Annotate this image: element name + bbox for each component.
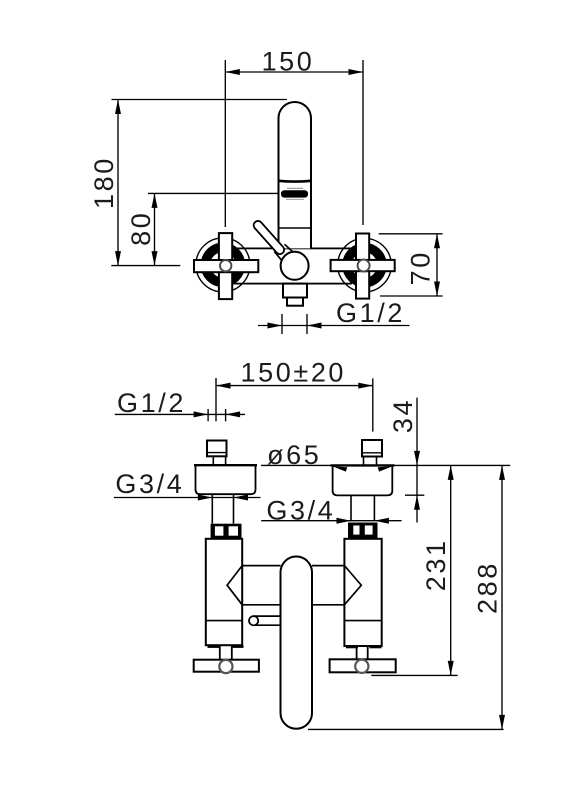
svg-text:150: 150 xyxy=(262,47,315,77)
arrow G1/2 left xyxy=(268,323,283,329)
arrow ø65 left xyxy=(333,466,348,471)
dim 70 extension top xyxy=(379,233,443,235)
arrow 231 bottom xyxy=(448,661,454,676)
right handle bar xyxy=(330,659,396,672)
arrowheads bottom view xyxy=(194,383,505,730)
left inlet square xyxy=(207,441,227,457)
arrow G1/2 right xyxy=(226,411,241,417)
arrow 288 top xyxy=(499,465,505,480)
dim 70 extension bottom xyxy=(380,295,443,297)
231 dim line xyxy=(450,465,452,675)
34 bottom tick xyxy=(405,494,424,496)
arrow ø65 right xyxy=(378,466,393,471)
spout band top edge xyxy=(287,187,303,189)
arrow 180 top xyxy=(115,100,121,115)
arrow 150 right xyxy=(349,69,364,75)
dim 80 line xyxy=(154,193,156,265)
arrow 150±20 right xyxy=(358,383,373,389)
arrowheads top view xyxy=(115,69,440,329)
left body shadow marks xyxy=(208,645,220,648)
arrow G3/4 mid right xyxy=(374,518,389,524)
G3/4 left leader xyxy=(114,497,261,499)
arrow 80 bottom xyxy=(152,251,158,266)
texts bottom view xyxy=(115,358,502,614)
right inlet square xyxy=(362,440,382,457)
svg-text:ø65: ø65 xyxy=(267,440,321,470)
right handle stem xyxy=(356,646,358,659)
right handle (cross) xyxy=(331,234,395,299)
texts top view xyxy=(89,47,436,329)
spout column xyxy=(279,102,312,248)
34 dim line xyxy=(416,398,418,523)
288 bottom ref xyxy=(308,728,504,730)
bridge lines xyxy=(242,565,280,567)
svg-text:G3/4: G3/4 xyxy=(266,496,335,526)
right nut xyxy=(348,523,378,539)
dim 150 extension lines xyxy=(224,60,226,227)
G1/2 leader xyxy=(115,413,245,415)
svg-text:G1/2: G1/2 xyxy=(117,388,186,418)
right pipe below dome xyxy=(350,495,352,521)
left pipe below dome xyxy=(211,494,213,523)
arrow G3/4 left dim left xyxy=(198,495,213,501)
outlet fitting xyxy=(283,284,307,298)
left dome (S-union cover) xyxy=(196,465,256,494)
G1/2 top leader line xyxy=(258,325,410,327)
svg-text:80: 80 xyxy=(126,211,156,246)
arrow 80 top xyxy=(152,193,158,208)
right valve body xyxy=(344,539,381,646)
arrow G3/4 mid left xyxy=(337,518,352,524)
svg-text:231: 231 xyxy=(421,538,451,591)
right dome xyxy=(333,465,393,495)
150±20 dim line xyxy=(216,385,373,387)
spout lower line xyxy=(279,227,312,229)
svg-text:G1/2: G1/2 xyxy=(336,298,405,328)
dim 180 line xyxy=(117,100,119,266)
spout band lower edge xyxy=(286,198,304,200)
mixer knob circle xyxy=(281,252,309,280)
right body shadow marks xyxy=(346,646,358,649)
diverter lever xyxy=(252,219,293,260)
dim 70 line xyxy=(436,234,438,296)
svg-text:34: 34 xyxy=(388,398,418,433)
svg-text:150±20: 150±20 xyxy=(241,358,347,388)
arrow 150±20 left xyxy=(216,383,231,389)
svg-text:70: 70 xyxy=(406,250,436,285)
arrow G1/2 left xyxy=(194,411,209,417)
231 bottom ref xyxy=(371,674,457,676)
dim 180 extension top xyxy=(112,99,288,101)
hand shower capsule xyxy=(281,557,313,729)
faucet body bar xyxy=(219,248,351,283)
spout ring line xyxy=(279,180,312,183)
dim 150 line xyxy=(225,71,363,73)
diverter stub xyxy=(254,615,281,617)
arrow 70 bottom xyxy=(434,282,440,297)
left handle hub xyxy=(219,660,232,673)
arrow 180 bottom xyxy=(115,251,121,266)
150±20 ext lines xyxy=(215,378,217,421)
G3/4 mid leader/dim xyxy=(261,520,401,522)
arrow 288 bottom xyxy=(499,715,505,730)
left handle bar xyxy=(194,660,259,672)
arrow 34 bottom xyxy=(414,495,420,510)
left handle stem xyxy=(219,645,221,660)
svg-text:G3/4: G3/4 xyxy=(115,469,184,499)
arrow 150 left xyxy=(225,69,240,75)
arrow 231 top xyxy=(448,465,454,480)
long reference line y=465.4 xyxy=(261,464,510,466)
288 dim line xyxy=(501,465,503,729)
right handle hub xyxy=(355,660,368,673)
svg-text:288: 288 xyxy=(473,561,503,614)
left handle U (cross) xyxy=(194,233,258,299)
spout dark band xyxy=(281,190,308,197)
G1/2 top ticks xyxy=(281,314,283,334)
left chevron xyxy=(227,566,242,605)
left nut xyxy=(211,524,242,539)
right chevron xyxy=(344,566,361,605)
arrow G1/2 right xyxy=(307,323,322,329)
arrow G3/4 left dim right xyxy=(234,495,249,501)
arrow 70 top xyxy=(434,234,440,249)
svg-text:180: 180 xyxy=(89,156,119,209)
left valve body xyxy=(206,539,242,645)
dim 180/80 extension bottom xyxy=(111,265,180,267)
arrow 34 top xyxy=(414,451,420,466)
dim 80 extension top xyxy=(148,192,278,194)
